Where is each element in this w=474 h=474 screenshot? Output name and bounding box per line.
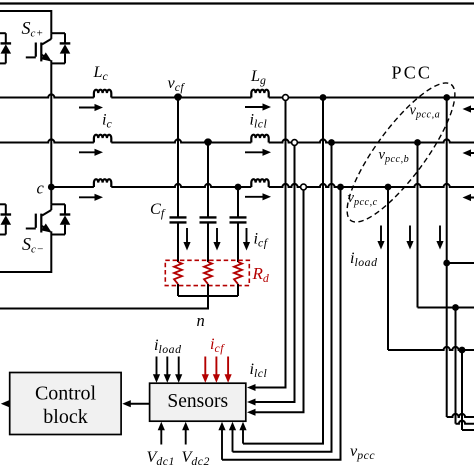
arrow i_c phase b — [79, 151, 96, 153]
wire: star bus — [178, 295, 238, 297]
node v_cf dot — [175, 94, 182, 101]
svg-text:block: block — [43, 406, 87, 428]
wire: PCC a sense drop — [446, 263, 448, 417]
svg-text:PCC: PCC — [392, 63, 433, 83]
arrow i_cf into sensors 3 (red) — [227, 357, 229, 376]
resistor R_d phase a — [174, 262, 182, 284]
wire: v_pcc sense b — [233, 143, 332, 452]
wire: PCC b sense drop — [455, 308, 457, 424]
arrow i_load into sensors 3 — [178, 357, 180, 376]
arrow i_c phase a — [79, 107, 96, 109]
wire: i_lcl sense b to sensors — [254, 145, 295, 402]
arrow grid current b — [470, 152, 474, 154]
wire: node c to S_c- collector — [50, 187, 52, 204]
wire: v_pcc sense a — [243, 98, 323, 444]
arrow v_pcc a into sensors — [242, 429, 244, 444]
wire: sense c out — [462, 429, 474, 431]
diode D_c- antiparallel — [51, 203, 65, 205]
wire: phase-c rail seg3 — [269, 184, 474, 187]
inductor L_g phase b — [251, 135, 268, 143]
node PCC b dot — [414, 139, 421, 146]
arrow i_load into sensors 1 — [156, 357, 158, 376]
arrow V_dc2 into sensors — [185, 429, 187, 445]
node PCC c dot — [385, 184, 392, 191]
wire: load branch a — [447, 262, 474, 264]
arrow i_lcl phase c — [245, 196, 264, 198]
arrow i_load a — [380, 226, 382, 243]
svg-text:Sensors: Sensors — [167, 391, 228, 412]
arrow i_lcl phase b — [245, 151, 264, 153]
PCC dashed ellipse — [331, 70, 471, 235]
wire: PCC c drop — [387, 187, 389, 350]
diode D_b+ (cropped leg) — [0, 32, 6, 34]
wire: i_lcl sense c to sensors — [254, 190, 304, 412]
node i_lcl tap b (open) — [292, 140, 298, 146]
resistor R_d phase b — [204, 262, 212, 284]
arrow i_c phase c — [79, 196, 96, 198]
node i_lcl tap c (open) — [301, 184, 307, 190]
wire: v_pcc sense c — [222, 187, 341, 460]
wire: phase-c rail seg2 — [111, 184, 251, 187]
node dot rail-c x=238 — [235, 184, 242, 191]
wire: phase-b rail seg1 — [0, 139, 94, 142]
wire: phase-b rail seg3 — [269, 139, 474, 142]
diode D_b- (cropped leg) — [0, 203, 6, 205]
wire: phase-a rail seg2 — [111, 94, 251, 97]
node i_lcl tap a (open) — [283, 95, 289, 101]
wire: sense b out — [456, 421, 474, 424]
wire: neutral n to DC midpoint — [0, 296, 208, 309]
node v_pcc tap b dot — [328, 139, 335, 146]
wire: PCC c sense drop — [461, 350, 463, 430]
inductor L_g phase c — [251, 179, 268, 187]
node load tap c dot — [459, 347, 466, 354]
arrow i_load b — [409, 226, 411, 243]
node load tap b dot — [452, 304, 459, 311]
svg-text:n: n — [197, 311, 205, 330]
transistor S_c- IGBT — [50, 204, 52, 210]
arrow grid current a — [470, 108, 474, 110]
node v_pcc tap a dot — [320, 94, 327, 101]
transistor S_c+ IGBT — [50, 33, 52, 39]
arrow cap current c — [246, 228, 248, 244]
arrow v_pcc b into sensors — [232, 429, 234, 452]
arrow control output — [8, 403, 10, 405]
wire: phase-b rail seg2 — [111, 139, 251, 142]
wire: phase-a rail seg3 — [269, 97, 474, 99]
wire: resistor legs to star bus — [177, 284, 179, 296]
arrow i_lcl phase a — [245, 106, 264, 108]
svg-text:c: c — [37, 179, 45, 198]
node PCC a dot — [443, 94, 450, 101]
wire: PCC b drop — [417, 143, 419, 308]
block Control box — [10, 373, 121, 435]
arrow cap current b — [216, 228, 218, 244]
arrow grid current c — [470, 197, 474, 199]
wire: i_lcl sense a to sensors — [254, 100, 286, 387]
inductor L_c phase b — [94, 135, 111, 143]
wire: phase-c rail seg1 — [51, 186, 94, 188]
wire: PCC a drop — [446, 98, 448, 264]
arrow i_load c — [439, 226, 441, 243]
wire: load branch c — [388, 347, 474, 350]
capacitor C_f phase a — [177, 98, 179, 218]
resistor R_d box (dashed) — [165, 260, 249, 285]
node dot rail-b x=208 — [205, 139, 212, 146]
inductor L_c phase a — [94, 90, 111, 98]
diode D_c+ antiparallel — [51, 32, 65, 34]
arrow i_cf into sensors 1 (red) — [204, 357, 206, 376]
capacitor C_f phase b — [207, 143, 209, 218]
arrow V_dc1 into sensors — [160, 429, 162, 445]
wire: load branch b — [418, 307, 474, 309]
resistor R_d phase c — [234, 262, 242, 284]
block Sensors box — [150, 383, 246, 421]
svg-text:Control: Control — [35, 383, 97, 405]
wire: S_c+ emitter to node c — [50, 63, 52, 187]
arrow i_load into sensors 2 — [166, 357, 168, 376]
node v_pcc tap c dot — [337, 184, 344, 191]
node load tap a dot — [443, 260, 450, 267]
inductor L_g phase a — [251, 90, 268, 98]
inductor L_c phase c — [94, 179, 111, 187]
wire: sense a out — [447, 414, 474, 417]
wire: S_c- emitter to DC- — [0, 235, 51, 273]
arrow sensors to control — [130, 403, 150, 405]
node c junction dot — [48, 184, 55, 191]
wire: DC+ feed to leg c — [0, 11, 51, 33]
arrow cap current a — [186, 228, 188, 244]
wire: phase-a rail seg1 — [0, 94, 94, 97]
arrow v_pcc c into sensors — [221, 429, 223, 460]
wire: DC+ top bus — [0, 2, 474, 4]
capacitor C_f phase c — [237, 187, 239, 217]
arrow i_cf into sensors 2 (red) — [215, 357, 217, 376]
